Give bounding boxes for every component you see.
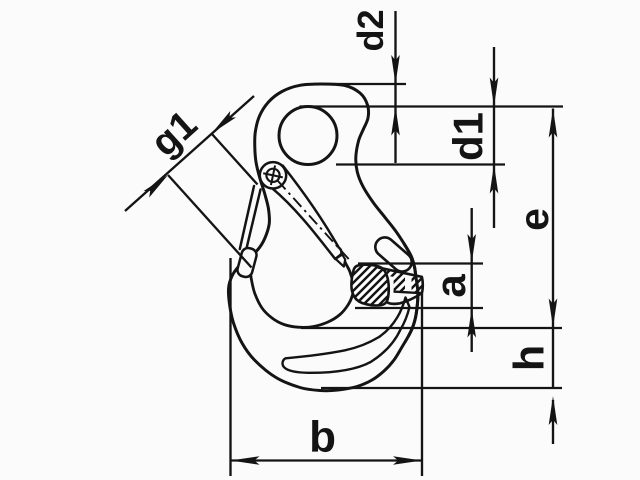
svg-text:d2: d2	[350, 9, 391, 51]
svg-text:b: b	[309, 412, 336, 461]
svg-text:e: e	[511, 208, 557, 231]
svg-text:d1: d1	[445, 112, 492, 161]
svg-text:h: h	[506, 345, 554, 371]
svg-text:a: a	[427, 274, 474, 298]
